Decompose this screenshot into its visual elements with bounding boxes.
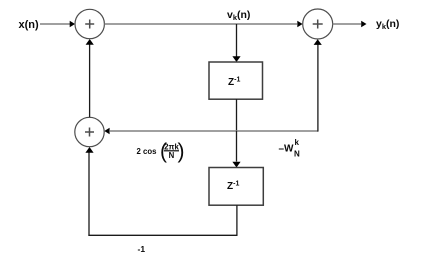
svg-text:–W: –W <box>279 144 295 155</box>
arrowhead into adder U2 bottom <box>314 39 322 45</box>
svg-text:k: k <box>295 138 300 147</box>
wire: delay Z2 output down <box>236 205 238 235</box>
wire: adder U2 output lead <box>333 23 361 25</box>
svg-text:x(n): x(n) <box>19 19 40 31</box>
delay block Z1 (upper z^-1) <box>209 62 263 99</box>
wire: bottom feedback run left (-1 path) <box>88 234 237 236</box>
wire: node w right along junction line <box>237 130 318 132</box>
adder U1 (top-left summing junction) <box>75 9 104 38</box>
wire: delay Z1 output down to node w <box>236 99 238 131</box>
arrowhead into delay Z1 top <box>232 56 240 62</box>
wire: up to adder U2 bottom <box>317 44 319 132</box>
svg-text:N: N <box>169 151 175 160</box>
arrowhead into adder U1 bottom <box>86 39 94 45</box>
svg-text:-1: -1 <box>138 244 146 254</box>
adder U3 (middle-left summing junction) <box>75 117 104 146</box>
wire: x(n) input lead <box>40 23 70 25</box>
svg-text:N: N <box>294 150 300 159</box>
plus sign of adder U2 <box>313 20 323 29</box>
arrowhead into adder U1 left <box>70 21 75 28</box>
coefficient label 2cos(2pik/N) <box>137 140 185 163</box>
svg-text:): ) <box>178 140 185 163</box>
wire: node w down to delay Z2 <box>236 131 238 162</box>
wire: feedback up to adder U3 bottom <box>88 149 90 236</box>
plus sign of adder U3 <box>85 128 94 137</box>
arrowhead into adder U3 bottom <box>85 147 93 153</box>
wire: node vk down to delay Z1 <box>236 24 238 57</box>
arrowhead at output yk(n) <box>361 21 366 28</box>
adder U2 (top-right summing junction) <box>303 9 333 39</box>
svg-text:vk(n): vk(n) <box>227 9 250 22</box>
arrowhead into adder U2 left <box>297 21 302 28</box>
wire: adder U3 up to adder U1 <box>89 41 91 117</box>
coefficient label -WNk <box>279 138 301 159</box>
arrowhead into adder U3 right <box>104 128 109 135</box>
arrowhead into delay Z2 top <box>232 162 240 168</box>
svg-text:2 cos: 2 cos <box>137 147 158 156</box>
wire: node w left to adder U3 (coefficient branch) <box>110 130 237 132</box>
svg-text:yk(n): yk(n) <box>376 18 399 31</box>
wire: adder U1 to adder U2 (through node vk) <box>104 23 297 25</box>
plus sign of adder U1 <box>85 20 94 29</box>
delay block Z2 (lower z^-1) <box>209 168 263 206</box>
